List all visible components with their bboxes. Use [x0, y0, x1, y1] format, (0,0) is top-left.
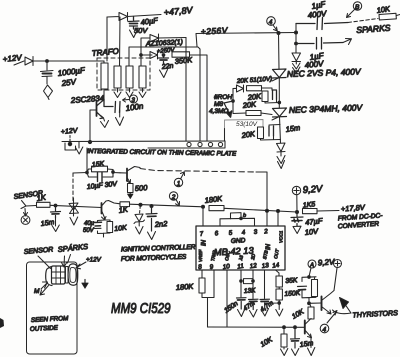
wire 180K bracket to pin9 — [202, 270, 214, 298]
svg-text:10V: 10V — [304, 227, 319, 237]
svg-text:3: 3 — [253, 228, 258, 235]
svg-text:OUT: OUT — [273, 248, 280, 260]
diode D7 to ground — [292, 53, 301, 62]
svg-text:4: 4 — [241, 229, 246, 236]
svg-text:TRAFO: TRAFO — [91, 47, 119, 58]
wire jumper loop pins 5-4 — [231, 213, 242, 219]
svg-text:2: 2 — [263, 228, 269, 236]
wire circled A down to RC pair — [309, 268, 311, 277]
SECTION: bottom-left connector — [0, 242, 196, 354]
svg-text:180K: 180K — [204, 194, 223, 205]
ground diamond below 1000uF — [44, 85, 53, 100]
wire pin10 long down — [226, 270, 228, 327]
transistor Q3 — [101, 203, 103, 214]
wire collector to 1K — [109, 201, 121, 204]
svg-text:FOR MOTORCYCLES: FOR MOTORCYCLES — [121, 254, 187, 263]
wire W1 top to +12V rail — [103, 61, 105, 63]
svg-text:SEEN FROM: SEEN FROM — [31, 315, 70, 324]
svg-text:STB: STB — [262, 250, 269, 260]
wire RC left to dashed drop — [73, 172, 87, 175]
wire sensor leader — [38, 256, 51, 269]
outline case box — [27, 262, 78, 354]
svg-text:M: M — [34, 288, 40, 295]
svg-text:1000µF: 1000µF — [57, 66, 86, 78]
capacitor 47uF supply — [291, 212, 303, 226]
svg-text:180K: 180K — [176, 282, 195, 292]
ground arrow below W2 — [114, 88, 121, 98]
resistor 13K pins 11-12 — [244, 279, 254, 284]
svg-text:OSC: OSC — [224, 250, 231, 261]
SECTION: right supply node — [291, 184, 384, 237]
transistor Q4 thyristor driver — [321, 297, 323, 311]
wire node to Q4 base — [309, 302, 322, 304]
arrow below connector cylinder — [84, 280, 86, 284]
ground arrow below W3 — [126, 88, 133, 98]
svg-text:10K: 10K — [291, 308, 306, 320]
svg-text:9,2V: 9,2V — [318, 257, 336, 267]
wire sparks arrow down — [62, 255, 71, 268]
svg-text:1: 1 — [177, 181, 181, 188]
svg-text:35K: 35K — [285, 277, 298, 285]
ground open double arrow below D6 — [277, 152, 285, 169]
svg-text:SPÁRKS: SPÁRKS — [57, 242, 88, 254]
wire chain bottom node — [265, 300, 280, 303]
svg-text:6: 6 — [214, 230, 219, 237]
zener diode below junction — [139, 206, 142, 214]
wire gate2 bottom rail — [261, 136, 281, 140]
wire W3 top to row y47 — [129, 47, 200, 141]
svg-text:IN: IN — [266, 243, 272, 250]
diode D1 input — [25, 57, 33, 66]
svg-text:THYRISTORS: THYRISTORS — [352, 309, 398, 319]
node junction RC bottom — [308, 302, 311, 305]
capacitor 22n — [159, 55, 169, 64]
node junction dot — [54, 204, 57, 207]
svg-text:M8: M8 — [214, 101, 223, 108]
node circled sensor terminal — [21, 216, 30, 225]
transformer winding W3 — [126, 66, 133, 88]
svg-text:5: 5 — [228, 229, 233, 236]
wire thyristor column from +256V rail — [278, 33, 281, 69]
scan blob left edge — [0, 318, 4, 328]
resistor 180K bottom — [199, 278, 205, 293]
connector body drawing — [46, 267, 52, 286]
wire +12V input stub — [14, 61, 24, 65]
svg-text:9,2V: 9,2V — [302, 184, 324, 196]
ground arrow at plate left — [76, 142, 83, 154]
capacitor 15m below bus — [291, 327, 300, 348]
potentiometer wiper arrow — [224, 101, 233, 115]
capacitor C 1uF 400V upper — [296, 18, 348, 30]
node circled 2 with arrow — [169, 192, 177, 200]
transformer winding W2 — [114, 66, 121, 88]
ground arrow pin12 — [250, 310, 258, 318]
svg-text:OUTSIDE: OUTSIDE — [30, 325, 59, 333]
svg-text:+256V: +256V — [201, 25, 229, 36]
SECTION: ceramic plate strip — [61, 127, 237, 157]
node junction at 22n tap — [162, 54, 165, 57]
ground arrow below Q1 emitter — [101, 118, 109, 128]
emitter RC pair 40u/10K — [98, 218, 111, 238]
svg-text:50V: 50V — [134, 26, 148, 35]
svg-text:7: 7 — [199, 230, 204, 237]
capacitor gate1 — [272, 90, 277, 100]
wire gate network left vertical — [232, 89, 234, 114]
transformer winding W4 — [139, 66, 146, 88]
svg-text:2n2: 2n2 — [154, 219, 169, 229]
node junction dots on +256V rail — [277, 32, 280, 35]
IC U1 MB4213 body — [196, 226, 285, 270]
ground arrow below 100n — [116, 117, 124, 126]
ground arrow pin11 — [238, 309, 246, 317]
wire vertical from rail to caps — [295, 24, 297, 54]
wire pin11 down — [240, 270, 242, 297]
plate top edge — [62, 140, 225, 143]
capacitor 1000uF 25V — [41, 71, 54, 85]
capacitor 15m sensor — [51, 206, 61, 219]
connector cylinder part — [68, 264, 78, 285]
ground arrow below 15m — [292, 349, 299, 356]
node junction dots RC pair — [86, 171, 89, 174]
svg-text:+17,8V: +17,8V — [341, 203, 367, 214]
plate bottom edge — [148, 141, 225, 148]
svg-text:50V: 50V — [83, 228, 95, 234]
wire sensor input tick — [21, 201, 26, 209]
ground arrow below zeners — [70, 217, 78, 225]
wire 180K to supply node — [224, 208, 297, 212]
svg-text:20K: 20K — [240, 129, 256, 140]
wire main rail right segment — [130, 204, 204, 207]
svg-text:15m: 15m — [285, 123, 301, 134]
wire main rail — [50, 205, 102, 207]
resistor 1K sensor — [37, 202, 51, 207]
svg-text:NEC 2VS P4, 400V: NEC 2VS P4, 400V — [287, 66, 362, 79]
resistor right branch — [312, 280, 318, 297]
node circled 4 with arrow — [267, 17, 276, 26]
wire dashed to sparks resistor — [348, 19, 378, 23]
svg-text:10: 10 — [222, 263, 230, 271]
svg-text:10µF 30V: 10µF 30V — [86, 181, 118, 191]
svg-text:10K: 10K — [114, 225, 127, 233]
wire dashed drop to main rail — [72, 173, 74, 203]
resistor 35K — [276, 276, 282, 287]
ground arrow below zener — [136, 227, 144, 235]
node circled B with arrow — [353, 2, 361, 10]
wire plate pin down to RC pair — [86, 148, 88, 173]
svg-text:INTEGRATED CIRCUIT ON THIN: INTEGRATED CIRCUIT ON THIN CERAMIC PLATE — [87, 148, 237, 158]
RC pair rails — [302, 277, 316, 304]
ground arrow below 22n — [160, 70, 168, 78]
ground arrow below resistor — [281, 347, 288, 356]
svg-text:350K: 350K — [174, 55, 193, 66]
ground arrow below 40uF — [130, 30, 138, 38]
wire pin8 down to 180K — [201, 270, 203, 278]
wire Q4 collector up to 9,2V — [334, 268, 337, 291]
wire Q4 emitter to circled 4 — [327, 311, 337, 324]
resistor 20K gate1 vertical — [262, 91, 268, 102]
svg-text:2D: 2D — [250, 253, 256, 261]
wire Q5 emitter to ground — [310, 338, 312, 348]
wire bracket down to bottom bus — [207, 298, 209, 328]
svg-text:13K: 13K — [244, 287, 257, 295]
svg-text:MM9 CI529: MM9 CI529 — [111, 301, 171, 317]
node circled A — [308, 260, 316, 268]
resistor 500 — [128, 184, 134, 193]
zener pair crossed — [69, 203, 79, 214]
SECTION: top-right sparks output — [196, 0, 400, 73]
capacitor 100n at Q1 collector — [104, 99, 120, 113]
svg-text:IN: IN — [202, 239, 208, 246]
SECTION: bottom-right driver — [208, 257, 399, 355]
wire junction down to IC pin 7 — [202, 207, 204, 226]
resistor below bus — [283, 327, 285, 334]
svg-text:SPARKS: SPARKS — [356, 23, 391, 35]
wire gate1 bottom rail — [265, 102, 279, 104]
svg-text:40µ: 40µ — [84, 221, 95, 227]
svg-text:2: 2 — [171, 194, 176, 201]
SECTION: middle amplifier row — [13, 148, 297, 240]
wire D2 anode down to W2 — [107, 17, 120, 66]
ground triangle below 47uF — [293, 226, 301, 233]
resistor R 20K gate1 horizontal — [247, 86, 262, 91]
capacitor gate2 — [269, 126, 274, 136]
svg-text:150K: 150K — [284, 290, 301, 298]
svg-text:+47,8V: +47,8V — [163, 5, 194, 18]
resistor 150K — [276, 289, 282, 300]
capacitor C 1uF 400V lower — [296, 38, 343, 50]
svg-text:20K: 20K — [241, 100, 257, 111]
capacitor 2n2 — [146, 206, 157, 231]
svg-text:400V: 400V — [307, 9, 327, 20]
wire 350K to vertical drop — [190, 55, 208, 141]
capacitor 10uF 30V — [87, 170, 120, 178]
SECTION: top-left power input — [2, 53, 104, 100]
svg-text:MB 42 13: MB 42 13 — [214, 245, 255, 257]
diode D4 +250V — [150, 51, 158, 59]
node junction collector line crosses rail — [266, 209, 269, 212]
wire +256V rail — [196, 33, 296, 47]
thyristor SCR1 NEC 2VS P4 — [273, 69, 287, 78]
diode D6 down — [277, 143, 286, 152]
svg-text:20K 51(10V): 20K 51(10V) — [236, 76, 273, 86]
svg-text:#ROH: #ROH — [214, 94, 232, 101]
arrow below connector left — [40, 286, 49, 296]
node circled plus 9,2V — [292, 186, 300, 194]
node circled 3 with arrow — [130, 95, 138, 103]
diode D3 AZ10632 — [150, 34, 159, 42]
svg-text:B: B — [355, 4, 360, 11]
transistor Q2 driver — [126, 169, 128, 182]
plate terminal circles — [187, 142, 191, 146]
wire dashed collector line from middle stage — [140, 169, 256, 173]
svg-text:+12V: +12V — [86, 257, 102, 264]
ground arrow below 15m — [52, 218, 59, 232]
wire pin14 to resistor chain — [276, 270, 280, 276]
resistor 10K Q5 collector — [308, 307, 314, 319]
svg-text:IGNITION CONTROLLER: IGNITION CONTROLLER — [121, 244, 196, 254]
resistor 20K gate2 vertical — [258, 127, 264, 139]
capacitor 40uF 50V — [128, 17, 139, 30]
node circled 4 output — [320, 324, 329, 333]
svg-text:11: 11 — [237, 263, 244, 271]
wire VCC1 pin up to rail — [277, 211, 279, 226]
capacitor left branch — [298, 285, 307, 287]
svg-text:VREF: VREF — [198, 249, 203, 262]
node circled 1 with arrow — [174, 178, 182, 186]
wire D3 to x186 drop — [159, 37, 187, 40]
svg-text:15K: 15K — [91, 161, 104, 169]
wire diode D2 to +47.8V label — [128, 15, 162, 17]
wire base of Q1 down to plate — [90, 110, 97, 141]
wire pin13 down — [264, 270, 266, 299]
svg-text:14: 14 — [272, 262, 280, 270]
wire cap stub — [46, 61, 48, 70]
resistor 10K sparks — [379, 13, 396, 20]
svg-text:SENSOR: SENSOR — [24, 246, 54, 256]
svg-text:1K: 1K — [36, 193, 47, 203]
svg-text:b: b — [243, 213, 246, 219]
capacitor 47n pin12 — [249, 299, 259, 309]
svg-text:TRIG: TRIG — [210, 250, 217, 262]
resistor 350K — [172, 52, 190, 57]
svg-text:500: 500 — [135, 183, 149, 193]
resistor 1K collector — [120, 202, 130, 207]
wire vertical x186 to plate — [185, 38, 187, 142]
svg-text:15m: 15m — [299, 340, 314, 349]
wire bottom bus — [208, 326, 306, 328]
capacitor pin11 — [237, 298, 247, 309]
wire pin12 down — [252, 270, 254, 299]
symbol arrow THYRISTORS — [340, 298, 349, 309]
transformer dashed core box — [97, 58, 150, 90]
ground arrow below 2n2 — [148, 232, 156, 240]
svg-text:10K: 10K — [260, 336, 275, 348]
wire +12V stub to plate — [69, 136, 71, 145]
wire +12V arrow to connector — [76, 262, 86, 269]
ground arrow below Q5 — [308, 348, 315, 356]
svg-text:NEC 3P4MH, 400V: NEC 3P4MH, 400V — [289, 102, 364, 115]
wire +12V rail to transformer — [33, 60, 104, 62]
SECTION: transformer and dc-dc — [70, 5, 207, 144]
wire jumper bridge pins 6-3 — [220, 218, 255, 226]
svg-text:4,3MΩ: 4,3MΩ — [209, 108, 228, 115]
svg-text:12: 12 — [249, 262, 257, 270]
ground arrow pin13 — [261, 309, 269, 317]
node junction to IC pin7 — [202, 205, 205, 208]
svg-text:CONVERTER: CONVERTER — [338, 221, 380, 231]
ground double arrow below D7 — [293, 62, 301, 74]
diode D5 gate1 — [233, 85, 244, 92]
wire 9,2V node down — [296, 195, 298, 212]
capacitor pin13 — [260, 299, 270, 308]
transformer winding W1 — [101, 63, 108, 89]
svg-text:150n: 150n — [223, 300, 240, 315]
svg-text:53(10V: 53(10V — [236, 121, 258, 128]
annotation box 53(10V) — [225, 120, 264, 129]
ground arrow below chain node — [276, 303, 283, 316]
resistor 10K emitter — [107, 222, 113, 233]
wire W4 top to AZ diode row — [141, 38, 150, 66]
svg-text:13: 13 — [261, 262, 269, 270]
transistor Q5 — [304, 321, 306, 334]
svg-text:+12V: +12V — [61, 127, 79, 136]
svg-text:4: 4 — [323, 327, 327, 334]
wire annotation drop to plate — [224, 129, 226, 142]
wire 1K5 to +17,8V — [317, 210, 339, 213]
wire W1 bottom to 2SC2834 collector — [103, 89, 105, 99]
svg-text:47µF: 47µF — [305, 216, 324, 227]
SECTION: IC MB4213 — [176, 209, 301, 327]
SECTION: thyristor column — [140, 33, 364, 226]
svg-text:25V: 25V — [60, 77, 77, 88]
arrow below 500 — [129, 193, 131, 195]
wire main rail left — [26, 205, 36, 208]
wire sparks lower arrow — [343, 39, 352, 45]
diode D2 to +47.8V — [107, 13, 128, 21]
svg-text:GND: GND — [231, 237, 246, 245]
node junction dot — [46, 60, 49, 63]
svg-text:4: 4 — [269, 19, 273, 26]
svg-text:VCC1: VCC1 — [279, 230, 284, 243]
ground arrow below W4 — [139, 88, 146, 98]
thyristor SCR2 NEC 3P4MH — [273, 108, 287, 117]
